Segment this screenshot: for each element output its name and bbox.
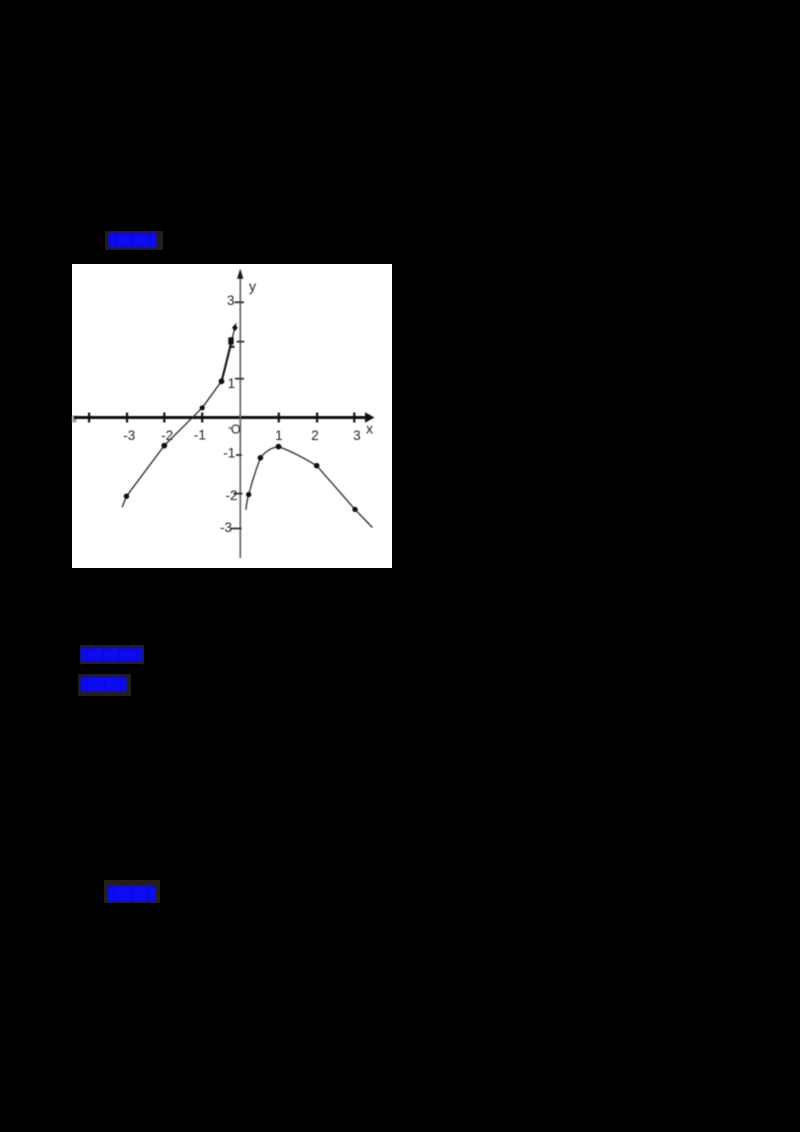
- svg-text:2: 2: [311, 428, 319, 443]
- svg-text:-3: -3: [220, 520, 232, 535]
- svg-text:y: y: [249, 278, 256, 294]
- svg-text:1: 1: [275, 428, 283, 443]
- svg-text:3: 3: [353, 428, 361, 443]
- svg-text:x: x: [366, 420, 373, 436]
- svg-text:3: 3: [227, 293, 235, 308]
- svg-text:-2: -2: [161, 428, 173, 443]
- svg-text:-1: -1: [223, 446, 235, 461]
- svg-text:-2: -2: [226, 488, 238, 503]
- svg-text:1: 1: [228, 376, 236, 391]
- svg-text:-3: -3: [123, 428, 135, 443]
- svg-text:O: O: [231, 423, 241, 437]
- svg-text:-1: -1: [194, 428, 206, 443]
